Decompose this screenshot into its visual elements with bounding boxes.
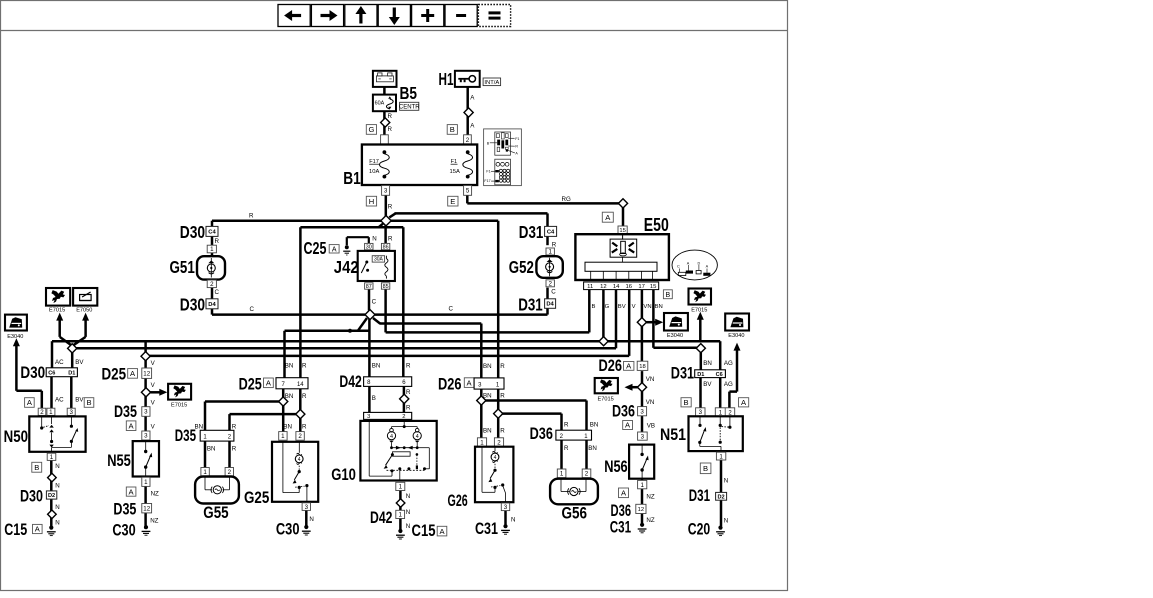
svg-text:3: 3 (305, 504, 309, 511)
svg-text:D2: D2 (718, 494, 725, 500)
svg-text:G55: G55 (203, 504, 228, 522)
svg-text:3: 3 (384, 188, 388, 195)
svg-text:C: C (677, 265, 680, 269)
svg-text:C6: C6 (716, 372, 723, 378)
svg-text:D26: D26 (599, 357, 623, 375)
svg-text:D35: D35 (114, 403, 137, 421)
svg-text:C31: C31 (610, 519, 631, 537)
svg-text:4: 4 (416, 434, 419, 440)
svg-text:A: A (687, 261, 690, 265)
svg-text:R: R (406, 363, 411, 370)
svg-text:D30: D30 (180, 222, 206, 242)
svg-text:VN: VN (646, 399, 655, 406)
svg-text:G10: G10 (331, 466, 356, 484)
svg-text:G25: G25 (244, 489, 269, 507)
svg-text:R: R (302, 424, 307, 431)
svg-text:BN: BN (285, 363, 294, 370)
svg-text:D35: D35 (113, 501, 136, 519)
svg-text:BN: BN (285, 393, 294, 400)
svg-text:D30: D30 (180, 294, 206, 314)
svg-text:87: 87 (366, 284, 372, 290)
svg-text:VN: VN (643, 304, 651, 310)
svg-text:R: R (232, 446, 237, 453)
svg-text:2: 2 (298, 433, 302, 440)
svg-text:2: 2 (548, 281, 552, 288)
svg-text:2: 2 (585, 471, 589, 478)
svg-text:BN: BN (372, 363, 381, 370)
svg-text:D31: D31 (671, 365, 694, 383)
svg-text:E7015: E7015 (171, 403, 187, 409)
svg-text:D4: D4 (546, 302, 554, 308)
svg-text:RG: RG (562, 196, 571, 203)
svg-text:N: N (406, 523, 410, 530)
svg-text:N: N (55, 520, 59, 527)
svg-text:12: 12 (143, 370, 150, 377)
svg-text:3: 3 (69, 409, 73, 416)
svg-text:C15: C15 (4, 521, 27, 539)
svg-text:R: R (500, 363, 505, 370)
svg-text:BV: BV (703, 381, 712, 388)
svg-text:C6: C6 (48, 371, 55, 377)
svg-text:INT/A: INT/A (484, 80, 499, 86)
svg-text:D: D (698, 261, 701, 265)
svg-text:D25: D25 (102, 366, 127, 384)
svg-text:D30: D30 (20, 488, 43, 506)
svg-text:C20: C20 (688, 521, 710, 539)
svg-text:C31: C31 (475, 520, 498, 538)
svg-text:C: C (250, 306, 255, 313)
svg-text:16: 16 (626, 284, 633, 290)
svg-text:D36: D36 (611, 502, 632, 520)
svg-text:V: V (632, 304, 636, 310)
svg-text:2: 2 (497, 439, 501, 446)
svg-text:C4: C4 (547, 229, 555, 235)
svg-text:B1: B1 (343, 168, 361, 188)
svg-text:D31: D31 (518, 294, 543, 314)
svg-text:N: N (55, 504, 59, 511)
svg-text:15A: 15A (450, 169, 460, 175)
svg-text:H1: H1 (439, 69, 454, 89)
svg-text:2: 2 (40, 409, 44, 416)
svg-text:R: R (215, 238, 220, 245)
svg-text:1: 1 (210, 246, 214, 253)
svg-text:R: R (552, 242, 557, 249)
svg-text:B: B (684, 398, 689, 407)
svg-text:G: G (368, 125, 374, 134)
svg-text:AC: AC (55, 359, 64, 366)
svg-text:4: 4 (298, 457, 301, 463)
svg-text:R: R (302, 363, 307, 370)
svg-text:BN: BN (590, 422, 599, 429)
svg-text:R: R (406, 389, 411, 396)
svg-text:17: 17 (638, 284, 645, 290)
svg-text:1: 1 (399, 484, 403, 491)
svg-text:D25: D25 (239, 376, 262, 394)
svg-text:R: R (564, 445, 569, 452)
svg-text:60A: 60A (375, 100, 385, 106)
svg-text:N: N (55, 463, 59, 470)
svg-text:1: 1 (640, 482, 644, 489)
svg-text:VB: VB (647, 423, 655, 430)
svg-text:30: 30 (366, 245, 372, 251)
svg-text:2: 2 (466, 137, 470, 144)
svg-text:1: 1 (398, 512, 402, 519)
svg-text:D35: D35 (175, 427, 196, 445)
svg-text:BN: BN (588, 445, 597, 452)
svg-text:C25: C25 (304, 238, 327, 258)
svg-text:B: B (703, 464, 708, 473)
svg-text:D1: D1 (697, 372, 704, 378)
svg-text:D36: D36 (612, 403, 635, 421)
svg-text:BN: BN (483, 393, 492, 400)
svg-text:5: 5 (466, 188, 470, 195)
svg-text:E7050: E7050 (76, 308, 92, 314)
svg-text:R: R (388, 204, 393, 211)
svg-text:NZ: NZ (646, 494, 654, 501)
svg-text:F1: F1 (515, 137, 519, 141)
svg-text:BV: BV (75, 397, 84, 404)
svg-text:R: R (388, 236, 393, 243)
svg-text:30A: 30A (374, 257, 384, 263)
svg-text:E50: E50 (644, 215, 669, 235)
svg-text:N56: N56 (604, 458, 628, 476)
svg-text:3: 3 (699, 409, 703, 416)
svg-text:D42: D42 (339, 373, 361, 391)
svg-text:2: 2 (210, 281, 214, 288)
svg-text:3: 3 (504, 504, 508, 511)
svg-text:BV: BV (618, 304, 626, 310)
svg-text:86: 86 (383, 245, 389, 251)
svg-text:E3040: E3040 (667, 333, 683, 339)
svg-text:D36: D36 (530, 425, 553, 443)
svg-text:G: G (605, 304, 610, 310)
svg-text:N50: N50 (4, 428, 28, 446)
svg-text:E3040: E3040 (728, 333, 744, 339)
svg-text:C: C (215, 289, 220, 296)
svg-text:3: 3 (641, 433, 645, 440)
svg-text:B: B (592, 304, 596, 310)
svg-text:R: R (500, 428, 505, 435)
svg-text:3: 3 (367, 414, 370, 420)
svg-text:1: 1 (548, 249, 552, 256)
svg-text:N: N (406, 509, 410, 516)
svg-text:N: N (372, 236, 376, 243)
svg-text:15: 15 (650, 284, 657, 290)
svg-text:1: 1 (281, 433, 285, 440)
svg-text:R: R (406, 405, 411, 412)
svg-text:D31: D31 (689, 487, 710, 505)
svg-text:C30: C30 (112, 522, 135, 540)
svg-text:J42: J42 (334, 257, 359, 277)
svg-text:11: 11 (587, 284, 593, 290)
svg-text:A: A (332, 246, 337, 253)
svg-text:E3040: E3040 (7, 334, 23, 340)
svg-text:G52: G52 (509, 257, 534, 277)
svg-text:BN: BN (483, 428, 492, 435)
svg-text:NZ: NZ (151, 491, 159, 498)
svg-text:1: 1 (560, 471, 564, 478)
svg-text:D1: D1 (68, 371, 75, 377)
svg-text:1: 1 (49, 409, 53, 416)
svg-text:12: 12 (638, 507, 644, 513)
svg-text:G51: G51 (170, 257, 196, 277)
svg-text:R: R (500, 393, 505, 400)
svg-text:G26: G26 (448, 492, 468, 510)
svg-text:A: A (706, 265, 709, 269)
svg-text:BN: BN (703, 360, 712, 367)
svg-text:D31: D31 (519, 222, 544, 242)
svg-text:3: 3 (144, 433, 148, 440)
svg-text:AG: AG (724, 360, 733, 367)
svg-text:D42: D42 (370, 509, 392, 527)
svg-text:4: 4 (494, 455, 497, 461)
svg-text:NZ: NZ (150, 518, 158, 525)
svg-text:C: C (551, 289, 556, 296)
svg-text:B: B (666, 292, 671, 299)
svg-text:NZ: NZ (646, 517, 654, 524)
svg-text:C30: C30 (276, 521, 300, 539)
svg-text:H: H (369, 197, 374, 206)
svg-text:C: C (372, 298, 377, 305)
svg-text:N: N (724, 518, 728, 525)
svg-text:CENTR: CENTR (399, 104, 420, 110)
svg-text:N: N (309, 516, 313, 523)
svg-text:D30: D30 (20, 364, 45, 382)
svg-text:R: R (515, 145, 518, 149)
svg-text:E: E (450, 197, 455, 206)
svg-text:3: 3 (144, 409, 148, 416)
svg-text:R: R (564, 422, 569, 429)
svg-text:AC: AC (55, 397, 64, 404)
svg-text:N: N (724, 478, 728, 485)
svg-text:1: 1 (719, 453, 723, 460)
svg-text:C15: C15 (412, 522, 436, 540)
svg-text:B: B (34, 463, 39, 472)
svg-text:BN: BN (655, 304, 663, 310)
svg-text:18: 18 (639, 364, 645, 370)
svg-text:E7015: E7015 (49, 308, 65, 314)
svg-text:1: 1 (480, 439, 484, 446)
svg-text:10A: 10A (369, 169, 379, 175)
svg-text:D2: D2 (48, 493, 55, 499)
svg-text:B: B (450, 125, 455, 134)
svg-text:R: R (302, 393, 307, 400)
svg-text:B: B (372, 395, 376, 402)
svg-text:C: C (449, 305, 454, 312)
svg-text:C4: C4 (208, 229, 216, 235)
svg-text:14: 14 (297, 382, 304, 388)
svg-text:3: 3 (640, 408, 644, 415)
svg-text:85: 85 (383, 284, 389, 290)
svg-text:N: N (55, 483, 59, 490)
svg-text:BN: BN (207, 446, 216, 453)
svg-text:1: 1 (50, 454, 54, 461)
svg-text:G56: G56 (562, 505, 588, 523)
svg-text:R: R (388, 126, 393, 133)
svg-text:12: 12 (600, 284, 607, 290)
svg-text:B: B (86, 398, 91, 407)
svg-text:BV: BV (75, 359, 84, 366)
svg-text:B5: B5 (400, 83, 418, 103)
svg-text:BN: BN (483, 363, 492, 370)
svg-text:F17: F17 (484, 179, 490, 183)
svg-text:N51: N51 (660, 426, 686, 444)
svg-text:N: N (511, 517, 515, 524)
svg-text:1: 1 (203, 469, 207, 476)
svg-text:14: 14 (613, 284, 620, 290)
svg-text:F1: F1 (486, 170, 490, 174)
svg-text:R: R (249, 213, 254, 220)
svg-text:2: 2 (228, 469, 232, 476)
svg-text:R: R (232, 424, 237, 431)
svg-text:BN: BN (283, 424, 292, 431)
svg-text:D4: D4 (208, 302, 216, 308)
svg-text:2: 2 (402, 414, 405, 420)
svg-text:12: 12 (143, 505, 150, 512)
svg-text:4: 4 (390, 434, 393, 440)
svg-text:1: 1 (144, 479, 148, 486)
svg-text:D26: D26 (438, 376, 462, 394)
svg-text:N55: N55 (107, 452, 131, 470)
svg-text:VN: VN (646, 376, 655, 383)
svg-text:AG: AG (724, 381, 733, 388)
svg-text:N: N (406, 493, 410, 500)
svg-text:E7015: E7015 (691, 307, 707, 313)
svg-text:R: R (388, 113, 393, 120)
